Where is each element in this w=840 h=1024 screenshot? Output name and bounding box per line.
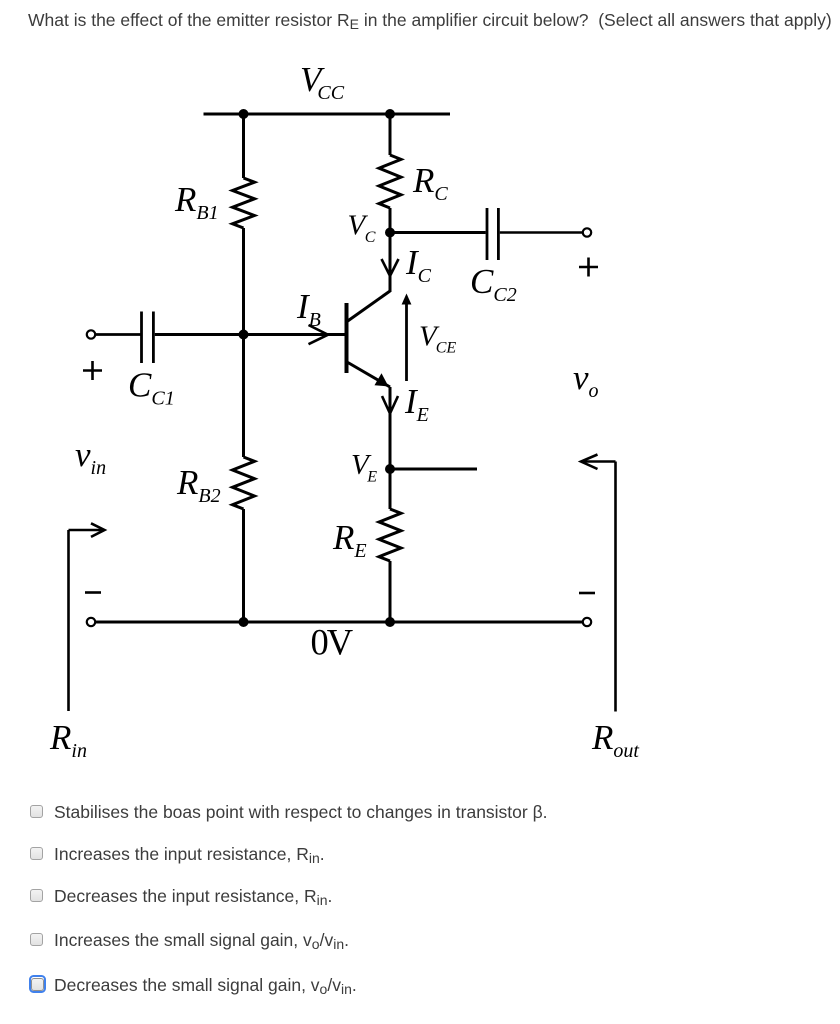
arrow IE head [382, 396, 398, 414]
input terminal wire [96, 333, 141, 336]
svg-text:RB1: RB1 [174, 180, 219, 224]
svg-text:IB: IB [296, 287, 321, 331]
wire CC1 to node B [155, 333, 244, 336]
svg-text:0V: 0V [311, 622, 353, 663]
wire RB2 top [242, 335, 245, 458]
resistor RB1 [233, 178, 255, 228]
arrow IC head [382, 259, 399, 276]
wire collector diagonal to transistor [347, 291, 390, 322]
junction dot VCC-RC [385, 109, 395, 119]
answer option 4 [29, 932, 31, 934]
transistor emitter arrow head [375, 373, 389, 386]
answer option 2 [29, 846, 31, 848]
checkbox 2 [30, 847, 43, 860]
bottom-right terminal circle [583, 618, 591, 626]
wire emitter vertical to node VE [389, 387, 392, 469]
question title [28, 10, 832, 31]
checkbox 5 [31, 978, 44, 991]
junction dot node B [239, 330, 249, 340]
svg-text:Rout: Rout [591, 718, 639, 762]
arrow Rout horizontal [583, 460, 616, 463]
wire RC top [389, 114, 392, 155]
arrow Rin horizontal [69, 529, 103, 532]
wire RC bottom to node VC [389, 208, 392, 233]
wire VCC top rail [204, 113, 451, 116]
plus sign input [83, 369, 102, 372]
svg-text:vin: vin [75, 435, 106, 479]
wire node VC to capacitor CC2 [390, 231, 486, 234]
wire collector vertical [389, 233, 392, 293]
minus sign input [85, 591, 101, 594]
wire RB1 top [242, 114, 245, 178]
transistor Q1 base bar [345, 303, 349, 373]
wire node VE to right stub [390, 468, 477, 471]
svg-text:RC: RC [412, 161, 448, 205]
svg-text:vo: vo [573, 358, 599, 402]
checkbox 4 [30, 933, 43, 946]
resistor RE [379, 509, 401, 561]
svg-text:IE: IE [404, 382, 429, 426]
arrow VCE head [402, 294, 412, 305]
bottom-left terminal circle [87, 618, 95, 626]
answer option 1 [29, 804, 31, 806]
checkbox 3 [30, 889, 43, 902]
svg-text:CC2: CC2 [470, 262, 517, 306]
junction dot RB2-0V [239, 617, 249, 627]
checkbox 1 [30, 805, 43, 818]
wire RB2 bottom [242, 509, 245, 622]
arrow IB head [309, 325, 329, 344]
junction dot VCC-RB1 [239, 109, 249, 119]
svg-text:VCE: VCE [419, 321, 456, 357]
input terminal circle [87, 330, 95, 338]
plus sign output [579, 266, 598, 269]
wire RB1 bottom [242, 228, 245, 335]
junction dot RE-0V [385, 617, 395, 627]
svg-text:CC1: CC1 [128, 366, 175, 410]
arrow Rout head [581, 455, 598, 470]
svg-text:VE: VE [351, 449, 377, 486]
capacitor CC2 plates [486, 208, 489, 260]
arrow Rin vertical [67, 530, 70, 711]
svg-text:RE: RE [332, 518, 367, 562]
minus sign output [579, 592, 595, 595]
wire RE bottom [389, 561, 392, 622]
wire RE top [389, 469, 392, 509]
wire emitter diagonal [347, 362, 390, 387]
wire 0V bottom rail [96, 621, 583, 624]
resistor RB2 [233, 457, 255, 509]
svg-text:IC: IC [405, 243, 432, 287]
svg-text:VC: VC [348, 210, 376, 247]
wire CC2 to output terminal [500, 231, 583, 234]
arrow Rout vertical [614, 462, 617, 712]
svg-text:VCC: VCC [300, 60, 345, 104]
capacitor CC1 plates [140, 312, 143, 364]
answer option 3 [29, 888, 31, 890]
arrow VCE line [405, 303, 408, 381]
checkbox 5 focus ring [29, 975, 46, 993]
wire base from node B [244, 333, 347, 336]
junction dot node VE [385, 464, 395, 474]
resistor RC [379, 155, 401, 208]
answer option 5 (focused) [28, 974, 30, 976]
svg-text:RB2: RB2 [176, 463, 221, 507]
circuit schematic [0, 0, 840, 790]
junction dot node VC [385, 228, 395, 238]
output terminal circle [583, 228, 591, 236]
arrow Rin head [91, 523, 105, 537]
svg-text:Rin: Rin [49, 718, 87, 762]
